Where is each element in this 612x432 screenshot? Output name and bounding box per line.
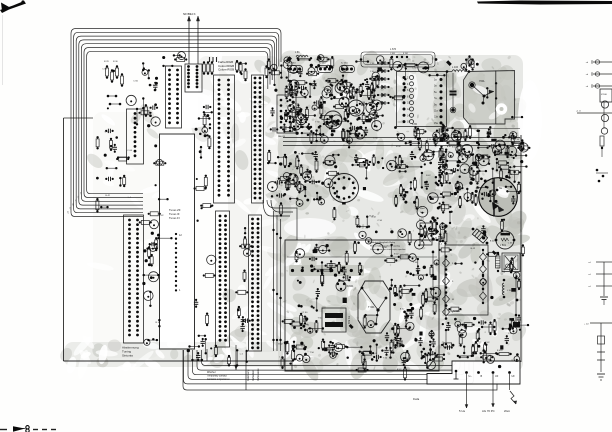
svg-text:B 424: B 424 xyxy=(497,350,503,352)
svg-text:B 42: B 42 xyxy=(426,175,431,177)
svg-text:C 50: C 50 xyxy=(501,145,506,147)
svg-text:IC 664: IC 664 xyxy=(341,63,348,65)
svg-text:C 6M: C 6M xyxy=(390,53,395,55)
svg-text:R 42: R 42 xyxy=(397,369,402,371)
svg-text:L 10h: L 10h xyxy=(452,66,459,69)
svg-text:UF: UF xyxy=(495,375,499,378)
svg-text:PAL 65: PAL 65 xyxy=(278,135,286,138)
svg-text:Tuner-FI: Tuner-FI xyxy=(169,216,180,220)
svg-text:R 42: R 42 xyxy=(476,188,481,190)
svg-text:C 66: C 66 xyxy=(494,203,499,205)
svg-text:R 42: R 42 xyxy=(159,215,164,217)
svg-text:T 50: T 50 xyxy=(315,121,320,123)
svg-text:L101: L101 xyxy=(503,268,505,274)
svg-text:C 66: C 66 xyxy=(102,68,107,70)
svg-text:C 50: C 50 xyxy=(459,156,464,158)
svg-text:760L: 760L xyxy=(479,79,485,83)
svg-text:Wien: Wien xyxy=(420,208,426,210)
svg-text:20uA: 20uA xyxy=(504,410,510,413)
svg-text:Bildrohre Ausgleich Relay: Bildrohre Ausgleich Relay xyxy=(370,241,396,244)
svg-text:B 42: B 42 xyxy=(278,344,283,346)
svg-text:+15: +15 xyxy=(73,203,75,206)
svg-text:T 901: T 901 xyxy=(368,305,375,309)
svg-text:M: M xyxy=(452,299,454,301)
svg-text:b 65: b 65 xyxy=(412,123,417,126)
svg-text:+15: +15 xyxy=(68,211,70,214)
svg-text:Deflection: Deflection xyxy=(252,370,255,381)
svg-text:AG 70 PC: AG 70 PC xyxy=(482,409,495,413)
svg-text:R 42: R 42 xyxy=(156,322,161,324)
svg-text:B 42: B 42 xyxy=(471,248,476,250)
svg-text:T 50: T 50 xyxy=(311,267,316,269)
svg-text:C 50: C 50 xyxy=(377,220,382,222)
svg-text:L 6h: L 6h xyxy=(295,51,300,54)
svg-text:B 42: B 42 xyxy=(452,146,457,148)
svg-text:5 Ua: 5 Ua xyxy=(459,409,465,413)
svg-text:T 50: T 50 xyxy=(460,173,465,175)
svg-text:B 42: B 42 xyxy=(407,358,412,360)
svg-text:NF/Bild K: NF/Bild K xyxy=(183,12,196,16)
svg-text:B 42: B 42 xyxy=(400,309,405,311)
svg-text:Deflessione: Deflessione xyxy=(257,368,260,381)
svg-text:L 67h: L 67h xyxy=(390,48,397,51)
svg-text:+1 U: +1 U xyxy=(576,111,581,113)
svg-text:Wischer: Wischer xyxy=(207,371,216,374)
svg-text:E 5M: E 5M xyxy=(403,53,408,55)
svg-text:B 42: B 42 xyxy=(490,240,495,242)
svg-text:C 50: C 50 xyxy=(303,312,308,314)
svg-text:C 66: C 66 xyxy=(509,157,514,159)
svg-text:Duda: Duda xyxy=(413,397,420,401)
svg-text:IC 664: IC 664 xyxy=(319,63,326,65)
svg-text:Comessione per cinescopio equa: Comessione per cinescopio equalizz xyxy=(370,248,406,251)
svg-text:C 66: C 66 xyxy=(446,152,451,154)
svg-text:R 42: R 42 xyxy=(292,117,297,119)
svg-text:IC901: IC901 xyxy=(347,285,354,288)
svg-text:C 66: C 66 xyxy=(127,150,132,152)
svg-text:C 50: C 50 xyxy=(373,137,378,139)
svg-text:+15: +15 xyxy=(78,196,80,199)
svg-text:B 42: B 42 xyxy=(447,146,452,148)
svg-text:Ablenkung: Ablenkung xyxy=(247,369,250,381)
svg-text:B 42: B 42 xyxy=(394,254,399,256)
svg-text:Temporary contact: Temporary contact xyxy=(207,375,227,378)
svg-text:R 30: R 30 xyxy=(113,61,118,63)
svg-text:C 66: C 66 xyxy=(325,240,330,242)
svg-text:C 50: C 50 xyxy=(412,67,417,69)
svg-text:+15: +15 xyxy=(81,192,83,195)
svg-text:U~: U~ xyxy=(469,375,473,378)
svg-text:T 50: T 50 xyxy=(383,358,388,360)
svg-text:+15: +15 xyxy=(75,200,77,203)
svg-text:Contatto temporaneo: Contatto temporaneo xyxy=(207,378,230,381)
svg-text:L 501: L 501 xyxy=(500,244,507,247)
svg-text:R 42: R 42 xyxy=(396,146,401,148)
svg-text:Sintonia: Sintonia xyxy=(122,354,133,358)
svg-text:C 50: C 50 xyxy=(105,132,110,134)
svg-text:C 50: C 50 xyxy=(456,129,461,131)
svg-text:Colore/RGB: Colore/RGB xyxy=(218,68,234,72)
svg-text:UF: UF xyxy=(512,375,516,378)
svg-text:TR 501: TR 501 xyxy=(347,316,350,325)
svg-text:IC 664: IC 664 xyxy=(289,63,296,65)
svg-text:C 66: C 66 xyxy=(508,242,513,244)
svg-text:B 42: B 42 xyxy=(105,195,110,197)
svg-text:C 66: C 66 xyxy=(133,80,138,82)
svg-text:IC180: IC180 xyxy=(601,94,608,96)
svg-text:B 42: B 42 xyxy=(369,216,374,218)
svg-text:+15: +15 xyxy=(70,207,72,210)
svg-text:R 29: R 29 xyxy=(104,61,109,63)
